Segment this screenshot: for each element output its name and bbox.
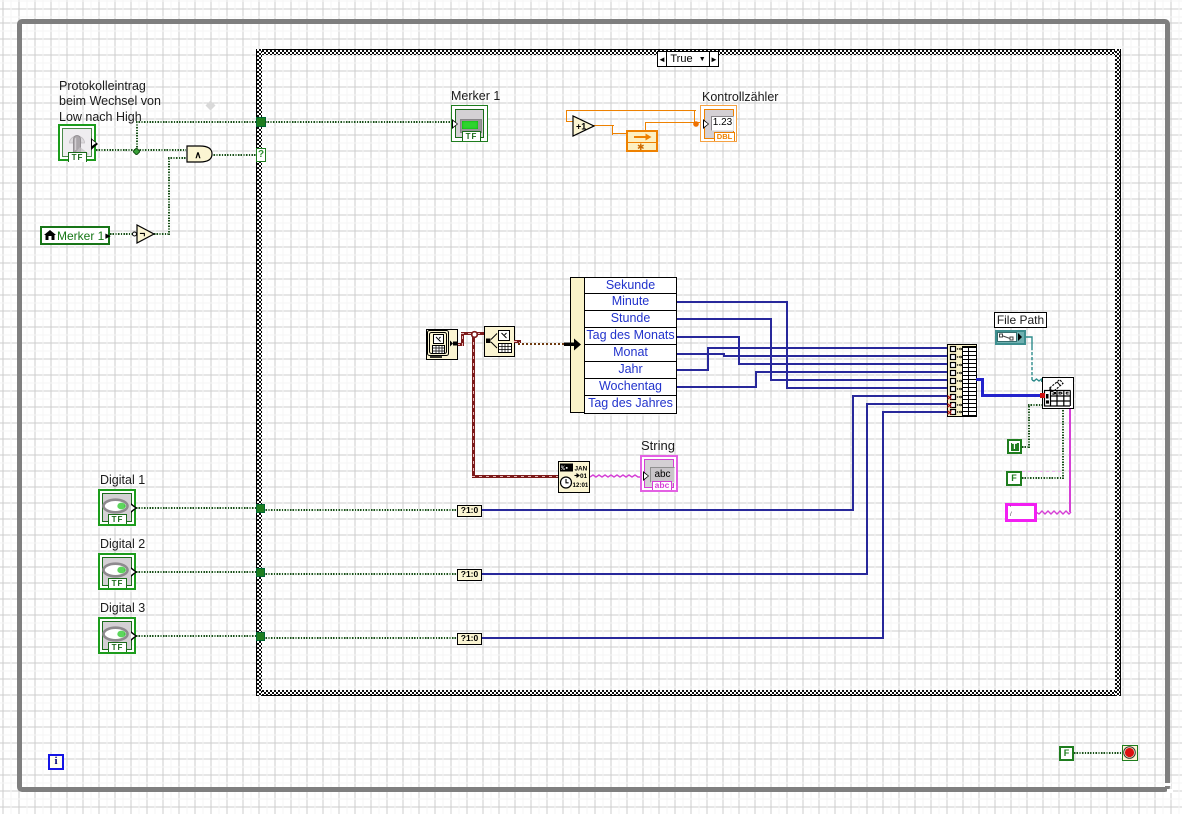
- label Merker 1 (indicator): [451, 89, 500, 104]
- black arrow into unbundle: [564, 338, 582, 351]
- pink string wire: format node to String indicator: [590, 472, 642, 482]
- blue wire: select 1 to build array: [482, 509, 854, 511]
- wire: tunnel to select 3: [263, 637, 457, 639]
- case structure border bottom: [256, 690, 1121, 696]
- boolean indicator Merker 1 (LED): [451, 105, 488, 142]
- wire: AND output to case selector tunnel: [211, 154, 256, 156]
- label Kontrollzaehler: [702, 90, 778, 105]
- orange wire: feedback output up: [645, 123, 646, 131]
- wire: vertical from NOT up to AND input b: [168, 157, 170, 235]
- label Digital 3: [100, 601, 145, 616]
- svg-text:∧: ∧: [195, 150, 202, 161]
- blue wire: Tag des Monats out: [677, 336, 740, 338]
- wire: tunnel to select 1: [263, 509, 457, 511]
- label File Path: [994, 312, 1047, 328]
- orange wire: step down: [612, 125, 613, 135]
- label Digital 2: [100, 537, 145, 552]
- orange junction dot: [692, 120, 700, 128]
- F constant: [1006, 471, 1022, 486]
- orange wire: stub into +1: [566, 121, 574, 122]
- svg-text:¬: ¬: [140, 229, 146, 240]
- teal path wire: [1026, 334, 1048, 384]
- wire: tunnel to select 2: [263, 573, 457, 575]
- cluster wire: up: [461, 332, 464, 346]
- case structure border right: [1115, 49, 1121, 696]
- F constant (stop): [1059, 746, 1074, 761]
- wire: junction to AND gate input a: [137, 149, 186, 151]
- wire: Digital 2 to tunnel: [136, 571, 257, 573]
- wire: Digital 1 to tunnel: [136, 507, 257, 509]
- T constant: [1007, 439, 1022, 454]
- cluster wire: junction to node2: [477, 332, 485, 335]
- wire: T constant to write node: [1022, 446, 1030, 448]
- node Get Date/Time In Seconds: [426, 329, 458, 360]
- select node ?1:0 (1): [457, 505, 482, 517]
- build array output array pattern: [962, 346, 977, 417]
- cluster wire: node1 out: [457, 343, 464, 346]
- select node ?1:0 (2): [457, 569, 482, 581]
- wire: Digital 3 to tunnel: [136, 635, 257, 637]
- label Digital 1: [100, 473, 145, 488]
- label String: [641, 438, 675, 453]
- select node ?1:0 (3): [457, 633, 482, 645]
- timestamp wire: node2 out: [514, 340, 521, 343]
- unbundle rows: [584, 277, 677, 413]
- boolean control Digital 1: [98, 489, 136, 526]
- blue wire: Stunde out: [677, 318, 772, 320]
- wire: F to stop terminal: [1074, 752, 1122, 754]
- numeric indicator Kontrollzaehler DBL: [700, 105, 737, 142]
- cluster wire: to format date/time node: [472, 475, 559, 478]
- svg-text:✱: ✱: [637, 142, 645, 150]
- blue wire: Monat out: [677, 353, 725, 355]
- case tunnel for Digital 2: [256, 568, 265, 577]
- orange wire: left vertical down to +1 input: [566, 110, 567, 122]
- brown dotted wire to unbundle: [518, 343, 566, 345]
- boolean control Digital 3: [98, 617, 136, 654]
- cluster junction circle: [470, 330, 479, 339]
- wire: NOT output right: [154, 233, 170, 235]
- wire: F constant to write node bottom: [1022, 477, 1064, 479]
- svg-text:%▪: %▪: [561, 465, 569, 472]
- orange wire: into feedback node: [612, 133, 627, 134]
- magenta wire: string constant to write node: [1069, 409, 1071, 512]
- case tunnel for Digital 3: [256, 632, 265, 641]
- cluster wire: to junction: [461, 332, 472, 335]
- svg-text:JAN: JAN: [575, 466, 588, 473]
- string indicator: [640, 455, 678, 492]
- red coercion dot on array input: [1040, 393, 1045, 398]
- orange wire: feedback top loop horizontal: [566, 110, 696, 111]
- blue wire: Minute out: [677, 301, 788, 303]
- increment +1 node: [572, 115, 596, 137]
- wire: into AND input b: [168, 157, 186, 159]
- junction diamond on boolean wire: [133, 148, 140, 155]
- wire: toggle output to junction (boolean green dotted): [96, 149, 137, 151]
- NOT gate: [130, 224, 158, 244]
- boolean control Digital 2: [98, 553, 136, 590]
- case selector tunnel [?]: [256, 148, 266, 162]
- orange wire: feedback output to Kontrollzaehler: [645, 122, 702, 123]
- decoration gray diamond: [205, 100, 216, 111]
- faint unused pink dashed wire: [1022, 471, 1063, 472]
- svg-text:12:01: 12:01: [573, 482, 589, 489]
- blue wire: Jahr out: [677, 369, 709, 371]
- local variable Merker 1: [40, 226, 110, 245]
- svg-text:+1: +1: [576, 122, 586, 132]
- build array node: [947, 344, 977, 417]
- stop (loop condition) terminal: [1122, 745, 1138, 761]
- boolean control (toggle switch) Protokolleintrag: [58, 124, 96, 161]
- svg-text:01: 01: [580, 473, 588, 480]
- node Seconds To Date/Time: [484, 326, 515, 357]
- wire: junction vertical up: [136, 122, 138, 150]
- cluster wire: junction vertical down: [472, 337, 475, 478]
- blue wire: Wochentag out: [677, 386, 757, 388]
- node Format Date/Time String: [558, 461, 590, 493]
- wire: Merker1 local to NOT gate: [110, 233, 133, 235]
- build array element slots: [947, 344, 977, 417]
- loop corner notch bottom-right: [1164, 783, 1171, 786]
- blue wire: select 2 to build array: [482, 573, 868, 575]
- feedback node: [626, 130, 658, 152]
- wire: horizontal to case tunnel: [136, 121, 257, 123]
- wire: tunnel to Merker 1 indicator: [265, 121, 452, 123]
- case tunnel for Digital 1: [256, 504, 265, 513]
- case tunnel (boolean, top-left): [256, 117, 266, 127]
- case structure border left: [256, 49, 262, 696]
- blue wire: select 3 to build array: [482, 637, 884, 639]
- orange wire: right vertical from top loop to junction: [694, 110, 695, 124]
- write to text file node: [1042, 377, 1074, 409]
- case structure border top: [256, 49, 1121, 55]
- orange wire: +1 output: [593, 125, 614, 126]
- free label "Protokolleintrag beim Wechsel von Low nach High": [59, 79, 161, 125]
- iteration terminal i: [48, 754, 64, 770]
- string constant (delimiter): [1005, 503, 1037, 522]
- Unbundle By Name node: [570, 277, 677, 413]
- file path control: [995, 330, 1026, 345]
- thick array wire: build array out: [976, 378, 984, 381]
- AND gate: [186, 145, 213, 163]
- case selector label "True": [657, 51, 719, 67]
